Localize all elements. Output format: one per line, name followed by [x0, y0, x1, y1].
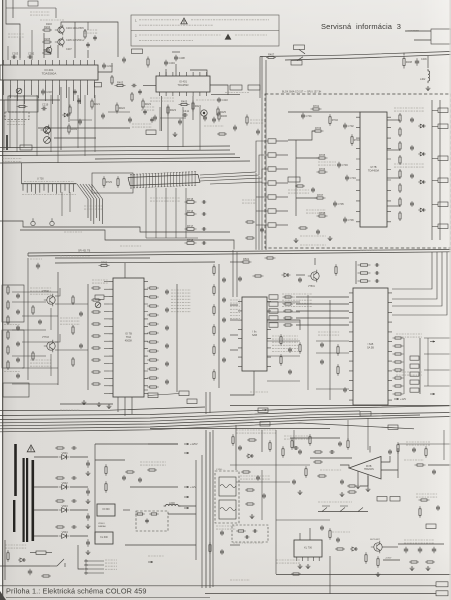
resistor R785 col right edge [213, 369, 215, 381]
wire R408 top to bus [403, 53, 405, 55]
resistor R703 [313, 126, 324, 132]
diode V604 [59, 530, 70, 539]
ground opamp b [366, 487, 371, 492]
wire audio right link [397, 448, 399, 478]
resistor R742 left col [7, 315, 9, 325]
IC IO6B right SAB [349, 288, 392, 405]
wire tuner far right vertical [439, 100, 441, 240]
resistor R729 boxed [103, 176, 113, 188]
tag G row 1 [269, 295, 278, 299]
capacitor C905 [404, 547, 408, 554]
wire F bottom drop3 [131, 397, 133, 414]
svg-text:C411: C411 [183, 109, 190, 113]
capacitor C713 tuner right [410, 201, 414, 207]
wire tuner right rail2 [387, 149, 400, 151]
resistor R406 [218, 111, 228, 122]
resistor R812 [347, 491, 357, 493]
wire comb pin 3 [30, 184, 32, 192]
wire fan-to-tuner d [210, 182, 268, 184]
resistor R716 [185, 209, 197, 215]
wire long bus upper to right edge [260, 52, 451, 57]
wire G row 2 [296, 303, 349, 305]
crystal X2 row [358, 272, 371, 274]
wire J bottom rail [276, 574, 451, 576]
wire G interconnect y322 [267, 321, 300, 323]
wire tuner pin K7 [276, 224, 288, 226]
wire under IC1 long a [60, 87, 62, 150]
capacitor C662 [343, 387, 347, 393]
capacitor C744 left col [16, 357, 20, 363]
wire IC1 pin 14 drop [94, 85, 96, 98]
wire strip drop 5 [185, 188, 187, 238]
svg-text:SA 5B: SA 5B [367, 346, 374, 349]
svg-text:R405: R405 [181, 100, 188, 104]
sprinkle b [120, 245, 142, 247]
wire G1 left feeds2 [230, 319, 238, 321]
svg-text:R222: R222 [119, 106, 126, 110]
wire IC5 left pin feed 2 [104, 288, 109, 290]
wire opamp bottom pin a [357, 471, 359, 484]
svg-text:4505K: 4505K [125, 338, 133, 342]
wire diode V603 feed [34, 509, 58, 511]
svg-text:R717: R717 [187, 224, 194, 228]
capacitor C705 [333, 201, 344, 207]
connector strip U700 comb [22, 183, 77, 185]
wire G right row ext y354 [424, 353, 451, 355]
network switch S601 [57, 559, 64, 566]
wire power h1 [95, 443, 178, 445]
dashed tuner module box [265, 94, 451, 248]
bc labels 2 [284, 436, 310, 439]
wire pin riser a [57, 45, 59, 58]
wire IC5 left pin feed 12 [104, 363, 109, 365]
band labels c [132, 124, 152, 127]
wire F trans link b [55, 349, 88, 351]
wire F left col rail [57, 272, 59, 385]
wire G right vert ext [427, 338, 429, 386]
resistor R424 [192, 101, 202, 112]
supply arrow +5V [184, 496, 189, 498]
svg-text:R729: R729 [106, 180, 113, 184]
capacitor C907 [432, 547, 436, 554]
wire step down left [27, 253, 29, 256]
capacitor C644 [122, 475, 126, 481]
svg-text:C 810 …: C 810 … [216, 469, 225, 471]
sprinkle j [230, 579, 250, 581]
trimpot TP70 [95, 302, 101, 308]
wire horizontal bus y159 [95, 158, 240, 160]
resistor R825 [291, 573, 301, 575]
wire col right edge rail [218, 264, 220, 388]
label SP201 [14, 96, 24, 98]
svg-text:BLOK SMA-CO 157 — SPLV 157 3: BLOK SMA-CO 157 — SPLV 157 3H [282, 91, 322, 94]
svg-text:C210: C210 [107, 64, 114, 68]
wire power h5 [125, 544, 196, 546]
wire G row 5 [296, 324, 349, 326]
wire IC1 pin 1 drop [3, 85, 5, 95]
tuner connector pin K5 [268, 195, 276, 199]
resistor R764 mid col [91, 335, 101, 337]
tag J1 [377, 497, 387, 502]
resistor R822 [305, 466, 307, 478]
wire tuner input row 2 [288, 131, 315, 140]
capacitor C909 top [220, 530, 224, 536]
ground K2 [426, 566, 431, 571]
wire small fan drop 2 [90, 199, 92, 221]
bus highway line 6 [0, 423, 414, 432]
crystal X3 row [358, 280, 371, 282]
wire bus left drop [259, 57, 261, 99]
resistor R743 left col [7, 330, 9, 340]
F mid labels [92, 280, 108, 283]
top right corner box H1 [431, 29, 451, 44]
svg-text:2.: 2. [135, 34, 138, 38]
resistor R767 mid col [91, 371, 101, 373]
capacitor C902 in SPI [245, 535, 250, 538]
inductor L600 [164, 501, 181, 506]
wire comb pin 4 [35, 184, 37, 194]
ground C622 [86, 524, 91, 529]
svg-text:M 7B: M 7B [370, 165, 376, 169]
resistor R803 [313, 461, 323, 463]
audio labels [236, 430, 276, 433]
svg-text:L600: L600 [169, 501, 175, 505]
resistor R716 tuner right [399, 197, 401, 207]
trimpot SP201 [16, 88, 22, 94]
wire tag link y226.5 [432, 226, 438, 228]
tag G row 3 [269, 309, 278, 313]
top cluster labels b [84, 30, 98, 33]
wire comb pin 1 [22, 184, 24, 191]
wire left col long rail [27, 258, 29, 380]
resistor R501 [241, 257, 252, 263]
tag J2 [390, 497, 400, 502]
resistor R745 left col [7, 360, 9, 370]
resistor R696 right rows [393, 385, 404, 387]
wire above IC2 [165, 69, 167, 76]
tuner right tag 6 [438, 224, 448, 229]
tag bottom right 1 [436, 582, 448, 587]
wire IC1 long drop 6 [57, 95, 59, 163]
wire crystal rail [355, 261, 357, 284]
svg-text:V602: V602 [62, 481, 69, 485]
ground bc3 [340, 492, 345, 497]
supply arrow +25V [184, 452, 189, 454]
capacitor C605 snub [71, 446, 77, 450]
wire comb pin 2 [26, 184, 28, 193]
tuner connector pin K3 [268, 167, 276, 171]
capacitor C615 snub [71, 476, 77, 480]
wire audio top [290, 437, 340, 439]
wire tuner pin K6 [276, 210, 288, 212]
capacitor C413 [138, 89, 142, 94]
wire F interconnect y302 [12, 301, 46, 303]
wire long y2495 run [28, 250, 451, 254]
sprinkle d [306, 210, 326, 213]
wire G1 left feeds [230, 304, 238, 306]
sprinkle g [60, 409, 80, 411]
capacitor C625 snub [71, 499, 77, 503]
wire right of IC5 rail [176, 284, 178, 392]
wire F bottom link [144, 389, 148, 391]
wire IC1 pin 9 drop [59, 85, 61, 95]
J right labels [416, 494, 438, 497]
wire bc vert c [293, 430, 295, 448]
wire IC5 left pin feed 10 [104, 348, 109, 350]
ground bc [250, 514, 255, 519]
wire diode V602 feed [34, 486, 58, 488]
resistor R694 right rows [393, 369, 404, 371]
wire G1 bottom drop [230, 371, 254, 395]
capacitor CX3 row [375, 279, 380, 282]
IC KL706 [294, 540, 322, 561]
wire IC1 pin 7 drop [45, 85, 47, 101]
wire G right row ext y338 [424, 337, 451, 339]
capacitor C410 [217, 97, 228, 103]
page bottom-left corner mark [0, 591, 6, 600]
resistor R706 [317, 167, 328, 173]
wire tuner pin stub 1 [256, 210, 268, 212]
wire header feed [78, 545, 84, 569]
svg-text:C410: C410 [222, 98, 229, 102]
wire top-left corner drop [6, 0, 20, 58]
ground C623 [86, 550, 91, 555]
tag box F2 [179, 391, 189, 396]
capacitor CX2 row [375, 271, 380, 274]
supply arrow +12V G2 [262, 409, 267, 411]
tuner right labels2 [394, 164, 424, 167]
wire tuner pin K4 [276, 182, 288, 184]
wire F interconnect y342 [22, 341, 58, 343]
capacitor C621 filter [86, 488, 90, 496]
wire pin riser b [74, 22, 76, 58]
wire strip drop 1 [145, 188, 147, 238]
audio amp op-amp triangle [349, 457, 381, 480]
audio right labels [406, 442, 430, 445]
capacitor C601 mains [28, 569, 32, 576]
trimmer SP202 [44, 127, 51, 134]
svg-text:+180V: +180V [385, 558, 392, 560]
bus highway line 3 [0, 413, 451, 423]
resistor R652 [280, 354, 282, 366]
wire opamp top pin [369, 446, 371, 453]
transformer lower winding bar [13, 500, 15, 532]
svg-text:TDA3560A: TDA3560A [42, 71, 57, 75]
capacitor C770 right of IC5 [165, 289, 169, 295]
tuner right tag 5 [438, 178, 448, 183]
resistor R708 [317, 211, 328, 217]
capacitor C701 [301, 113, 312, 119]
svg-text:C408: C408 [179, 56, 186, 60]
pot labels [318, 501, 352, 503]
capacitor C783 col right edge [222, 337, 226, 343]
resistor R781 col right edge [213, 284, 215, 296]
wire tuner mid link2 [296, 197, 317, 199]
tuner right tag 2 [438, 156, 448, 161]
svg-text:C404: C404 [169, 61, 176, 65]
wire top bus to note area [75, 22, 118, 57]
wire IC1 pin 12 drop [80, 85, 82, 104]
wire IC2 long drop 2 [167, 107, 169, 150]
resistor R751 [32, 351, 34, 361]
capacitor C221 [101, 113, 105, 119]
tuner right tag 3 [438, 202, 448, 207]
resistor R717 [185, 224, 197, 230]
box left small module F [3, 383, 29, 397]
ground under IC2 [173, 132, 178, 137]
box around R729 [92, 173, 133, 193]
capacitor C901 in SPI [253, 529, 258, 532]
svg-text:TDA2593: TDA2593 [178, 83, 190, 87]
wire IC5 left pin feed 8 [104, 333, 109, 335]
capacitor C707 [311, 187, 315, 193]
wire comb pin 11 [64, 184, 66, 191]
capacitor C433 [256, 129, 260, 135]
resistor R204 [42, 25, 52, 31]
capacitor C743 left col [16, 341, 20, 347]
resistor R770 right of IC5 [147, 287, 159, 289]
wire G2 left wires b [316, 352, 349, 354]
wire bus to comb [21, 163, 23, 184]
section divider v2 [212, 430, 214, 587]
capacitor C780 col right edge [222, 277, 226, 283]
capacitor C908 [220, 549, 224, 555]
svg-text:IO 7B: IO 7B [125, 332, 132, 336]
wire IC1 pin riser 1 [7, 46, 9, 60]
capacitor C809 [436, 505, 440, 511]
wire comb pin 6 [43, 184, 45, 191]
wire IC1 long drop 7 [77, 95, 79, 148]
resistor R625 snub [55, 500, 65, 502]
wire diode V603 out [70, 509, 88, 511]
capacitor C811 [262, 493, 266, 499]
K left labels [276, 560, 300, 563]
resistor R754 [72, 357, 74, 367]
diode V601 [59, 451, 70, 460]
wire F top entry [124, 263, 126, 278]
resistor R701 [311, 104, 322, 110]
capacitor C622 filter [86, 513, 90, 521]
arrow +12V right [430, 340, 435, 342]
wire IC1 long drop 8 [84, 95, 86, 156]
wire bc vert b [275, 430, 277, 574]
tuner interior labels2 [300, 235, 326, 237]
transformer TR600 winding bar 1 [14, 444, 17, 496]
wire small fan drop 4 [96, 199, 98, 218]
sprinkle l [300, 244, 326, 246]
capacitor C409 [131, 84, 136, 88]
svg-text:C703: C703 [342, 163, 349, 167]
wire mains v [4, 540, 6, 580]
wire G row 4 [296, 317, 349, 319]
wire bc vert f [443, 430, 445, 460]
diode V602 [59, 481, 70, 490]
capacitor C903 [320, 525, 324, 531]
capacitor C710 tuner right [410, 117, 414, 123]
small diagonal fan right of comb [77, 184, 103, 199]
labels under IC2 left [141, 107, 155, 110]
resistor R249 [68, 124, 78, 135]
G2 left labels [318, 332, 340, 335]
resistor R806 [347, 485, 357, 487]
resistor R662 [337, 364, 339, 376]
resistor R715 [185, 197, 197, 203]
diode V7050 [282, 273, 291, 277]
resistor R635 snub [55, 526, 65, 528]
capacitor C820 [256, 475, 260, 481]
top left labels [30, 12, 50, 15]
wire G1 left feeds4 [230, 349, 238, 351]
labels G rows [282, 294, 312, 306]
wire small fan drop 1 [87, 199, 89, 218]
bc labels 3 [320, 469, 342, 471]
wire IC1 pin 13 drop [87, 85, 89, 95]
wire left edge col [3, 100, 5, 150]
svg-text:U 700: U 700 [37, 178, 44, 181]
svg-text:C704: C704 [350, 176, 357, 180]
svg-text:ZARIAD: ZARIAD [98, 525, 106, 528]
ground tuner a [328, 236, 333, 241]
wire top edge drop [55, 8, 57, 18]
svg-text:SPI 401 TB: SPI 401 TB [78, 250, 91, 253]
svg-text:IO 600: IO 600 [102, 508, 110, 511]
resistor R207 [84, 29, 86, 39]
wire G2 left vert [329, 300, 331, 400]
resistor R404 [131, 92, 133, 102]
resistor R752 [72, 295, 74, 305]
capacitor C503 [238, 276, 242, 282]
wire J vert roll [329, 556, 331, 594]
diode V713 tuner [418, 208, 426, 212]
thick lead left edge [6, 135, 8, 150]
shield box left module 1 [2, 285, 24, 322]
resistor R601 input [7, 550, 9, 562]
resistor R762 top [99, 261, 110, 267]
resistor R423 [167, 105, 177, 116]
wire tag A2 link [297, 57, 303, 61]
diode V710 tuner [418, 124, 426, 128]
sprinkle a [64, 231, 82, 233]
resistor R718 [185, 238, 197, 244]
wire comb area down a [61, 192, 63, 216]
wire G interconnect y341 [267, 340, 300, 342]
capacitor C203 [11, 51, 18, 58]
wire IC2 long drop 4 [199, 107, 201, 150]
resistor R709 [295, 185, 305, 187]
resistor R702 [329, 114, 339, 126]
wire tuner pin K2 [276, 154, 288, 156]
tuner connector pin K4 [268, 181, 276, 185]
wire under IC1 long b [68, 87, 70, 122]
wire IC1 long drop 1 [9, 95, 11, 148]
capacitor C808 [432, 469, 436, 475]
wire VT703 collector right [55, 334, 60, 342]
ground VT901 [376, 572, 381, 577]
resistor R653 [299, 342, 301, 354]
resistor R711 tuner right [399, 127, 401, 137]
wire comb pin 8 [51, 184, 53, 192]
resistor R692 right rows [393, 353, 404, 355]
svg-text:R702: R702 [332, 118, 339, 122]
top cluster labels a [8, 34, 24, 37]
svg-text:R707: R707 [317, 193, 324, 197]
capacitor C220b [73, 89, 77, 94]
capacitor C781 col right edge [222, 297, 226, 303]
adjust mark 2 [50, 218, 54, 225]
sprinkle e [250, 120, 266, 123]
wire above IC2 c [190, 70, 207, 76]
svg-text:TDA450A: TDA450A [368, 168, 380, 172]
